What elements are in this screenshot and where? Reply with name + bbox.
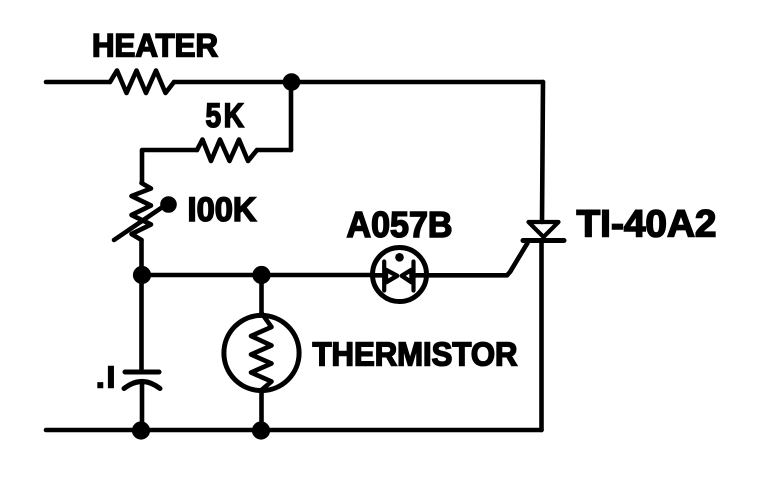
- trigger diode right triangle (points left): [402, 270, 412, 283]
- trigger diode left triangle (points right): [386, 270, 397, 283]
- node: junction middle rail / thermistor branch: [255, 268, 269, 282]
- wire: bottom rail: [46, 428, 542, 433]
- wire: gate lead from trigger diode to SCR gate: [428, 243, 528, 275]
- label HEATER: [92, 28, 218, 64]
- wire: capacitor bottom lead to bottom rail: [140, 382, 145, 430]
- wire: right rail lower (SCR cathode to bottom corner): [539, 242, 544, 430]
- wire: stub out of trigger diode right: [414, 273, 428, 278]
- label .1 (capacitor value): [96, 360, 117, 395]
- label A057B: [347, 204, 453, 245]
- svg-text:TI-40A2: TI-40A2: [577, 204, 717, 246]
- trigger diode right bar: [411, 262, 415, 291]
- wire: drop from top rail junction to 5K resistor: [289, 82, 294, 150]
- label T1-40A2: [577, 204, 717, 246]
- potentiometer wiper arrow with knob dot: [114, 199, 175, 241]
- label 5K: [206, 97, 247, 135]
- wire: top rail left segment: [46, 80, 110, 85]
- svg-text:I00K: I00K: [188, 191, 257, 229]
- resistor HEATER (zigzag in top rail): [110, 71, 174, 94]
- svg-text:HEATER: HEATER: [92, 28, 218, 64]
- svg-text:5K: 5K: [206, 97, 247, 135]
- wire: top rail right segment to top-right corner: [174, 80, 543, 85]
- wire: 5K right lead: [257, 148, 291, 153]
- wire: 5K left lead and elbow down: [142, 150, 197, 183]
- svg-text:A057B: A057B: [347, 204, 453, 245]
- wire: thermistor top lead: [259, 275, 264, 314]
- thermistor internal zigzag: [251, 313, 272, 390]
- wire: right rail upper (top corner down to SCR anode): [542, 82, 543, 222]
- capacitor C .1 top plate: [125, 370, 159, 375]
- trigger diode U A057B body circle: [373, 248, 427, 302]
- node: junction of top rail and 5K branch: [285, 76, 298, 89]
- label THERMISTOR: [313, 336, 518, 373]
- node: bottom rail / capacitor branch: [134, 424, 148, 438]
- label 100K: [188, 191, 257, 229]
- SCR cathode bar: [523, 238, 564, 243]
- potentiometer R 100K (vertical zigzag): [132, 183, 152, 240]
- svg-text:.I: .I: [96, 360, 117, 395]
- capacitor C .1 bottom curved plate: [124, 382, 160, 389]
- trigger diode internal dot: [395, 253, 404, 262]
- resistor R 5K: [197, 140, 257, 162]
- wire: middle rail from left junction to trigger-diode circle: [142, 273, 372, 278]
- node: junction middle rail / left branch: [135, 268, 149, 282]
- wire: stub into trigger diode left: [372, 273, 385, 278]
- trigger diode left bar: [382, 262, 386, 291]
- wire: thermistor bottom lead: [259, 390, 264, 430]
- SCR Q T1-40A2 triangle: [529, 222, 559, 237]
- svg-text:THERMISTOR: THERMISTOR: [313, 336, 518, 373]
- node: bottom rail / thermistor branch: [254, 424, 268, 438]
- thermistor body circle: [224, 315, 299, 390]
- wire: pot bottom to middle-rail junction and on down to capacitor: [139, 240, 144, 369]
